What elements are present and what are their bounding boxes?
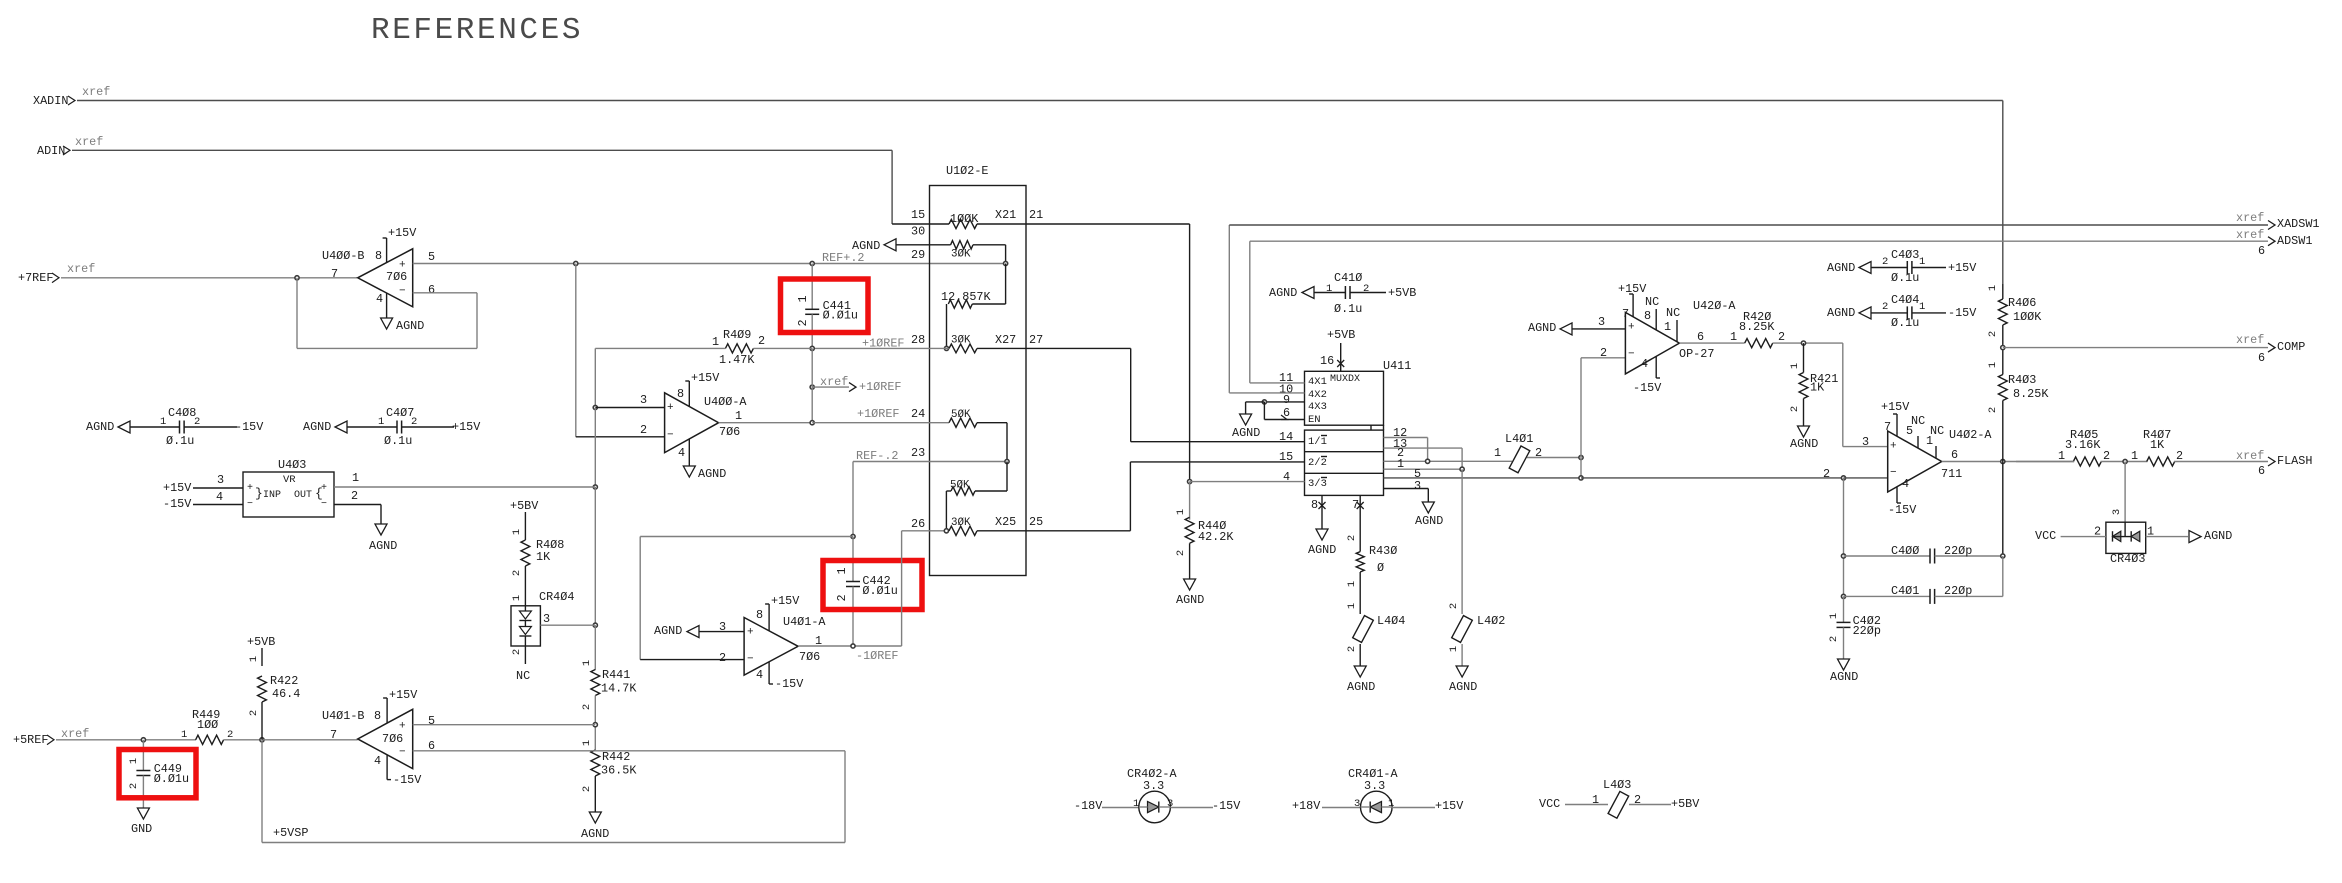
svg-text:3.16K: 3.16K bbox=[2065, 438, 2101, 452]
svg-text:4: 4 bbox=[678, 446, 685, 460]
svg-text:2: 2 bbox=[1882, 256, 1888, 268]
U402-A pin 4 -15V bbox=[1888, 477, 1917, 517]
CR404 diode 1 bbox=[519, 611, 531, 621]
svg-text:−: − bbox=[321, 499, 327, 510]
wire net to U402-A pin2 bbox=[1581, 476, 1888, 480]
CR402-A diode bbox=[1139, 802, 1171, 813]
U411 row3 label bbox=[1308, 478, 1327, 491]
svg-text:8: 8 bbox=[375, 249, 382, 263]
svg-text:7: 7 bbox=[1352, 498, 1359, 512]
svg-text:2: 2 bbox=[1778, 330, 1785, 344]
svg-text:8: 8 bbox=[1644, 309, 1651, 323]
resistor R421 1K bbox=[1789, 343, 1838, 451]
svg-text:+5REF: +5REF bbox=[13, 733, 48, 747]
svg-text:xref: xref bbox=[75, 135, 103, 149]
svg-text:14: 14 bbox=[1279, 430, 1293, 444]
svg-text:1: 1 bbox=[181, 729, 187, 741]
svg-text:2: 2 bbox=[758, 334, 765, 348]
svg-text:Ø.Ø1u: Ø.Ø1u bbox=[154, 772, 189, 786]
svg-text:ADSW1: ADSW1 bbox=[2277, 234, 2312, 248]
svg-text:3: 3 bbox=[543, 612, 550, 626]
svg-text:2: 2 bbox=[511, 570, 523, 576]
svg-text:46.4: 46.4 bbox=[272, 687, 300, 701]
svg-text:3: 3 bbox=[1354, 798, 1360, 810]
U411 pin 11 wire bbox=[1250, 371, 1305, 385]
svg-text:2: 2 bbox=[194, 416, 200, 428]
CR402-A left wire bbox=[1074, 798, 1139, 813]
U420-A pin 4 -15V bbox=[1633, 356, 1662, 395]
U411 pin 3 AGND bbox=[1384, 479, 1444, 528]
diode CR404 box bbox=[511, 590, 574, 646]
svg-text:+15V: +15V bbox=[691, 371, 720, 385]
svg-text:15: 15 bbox=[911, 208, 925, 222]
wire xref ADIN to pin15 bbox=[72, 150, 892, 224]
svg-text:AGND: AGND bbox=[654, 624, 682, 638]
svg-text:6: 6 bbox=[1283, 406, 1290, 420]
svg-text:3: 3 bbox=[2111, 509, 2123, 515]
U411 pin 4 wire bbox=[1188, 470, 1305, 484]
wire vertical to CR404 bbox=[594, 487, 596, 625]
svg-text:2: 2 bbox=[1882, 301, 1888, 313]
svg-text:+5VB: +5VB bbox=[1388, 286, 1416, 300]
op-amp U400-A bbox=[665, 393, 748, 453]
U411 pin 14 label bbox=[1279, 430, 1293, 444]
svg-text:R4Ø3: R4Ø3 bbox=[2008, 373, 2036, 387]
svg-text:14.7K: 14.7K bbox=[601, 682, 637, 696]
capacitor C403 bbox=[1827, 248, 1977, 285]
wire U402 pin2 vertical bbox=[1841, 478, 1845, 599]
svg-text:1.47K: 1.47K bbox=[719, 353, 755, 367]
svg-text:2: 2 bbox=[1448, 603, 1460, 609]
node R449/R422 bbox=[260, 738, 264, 742]
U401-B pin 5 wire bbox=[413, 714, 596, 728]
svg-text:AGND: AGND bbox=[1528, 321, 1556, 335]
port COMP bbox=[2236, 333, 2305, 365]
svg-text:6: 6 bbox=[428, 283, 435, 297]
svg-text:X27: X27 bbox=[995, 333, 1016, 347]
resistor 30K pin28-X27 bbox=[812, 333, 1130, 353]
svg-text:1: 1 bbox=[378, 416, 384, 428]
svg-text:8: 8 bbox=[1311, 498, 1318, 512]
svg-text:+: + bbox=[747, 627, 754, 639]
CR404 diode 2 bbox=[519, 606, 531, 646]
node L401/U420 bbox=[1579, 455, 1583, 480]
svg-text:5: 5 bbox=[428, 250, 435, 264]
wire U401-B feedback +5VSP bbox=[262, 740, 845, 843]
svg-text:2: 2 bbox=[1823, 467, 1830, 481]
U400-A pin 2 wire bbox=[576, 423, 665, 437]
svg-text:+: + bbox=[1890, 441, 1897, 453]
svg-text:1: 1 bbox=[248, 656, 260, 662]
svg-text:-15V: -15V bbox=[393, 773, 422, 787]
capacitor C410 bbox=[1269, 271, 1416, 316]
svg-text:2: 2 bbox=[1600, 346, 1607, 360]
CR401-A labels bbox=[1348, 767, 1398, 793]
svg-text:6: 6 bbox=[2258, 464, 2265, 478]
svg-text:−: − bbox=[667, 430, 674, 442]
voltage regulator U403 bbox=[243, 458, 334, 517]
svg-text:+15V: +15V bbox=[452, 420, 481, 434]
svg-text:7Ø6: 7Ø6 bbox=[799, 650, 820, 664]
CR401-A circle bbox=[1361, 791, 1393, 823]
resistor R430 0 bbox=[1346, 535, 1397, 614]
svg-text:2: 2 bbox=[1828, 636, 1840, 642]
svg-text:42.2K: 42.2K bbox=[1198, 530, 1234, 544]
svg-text:4X1: 4X1 bbox=[1308, 376, 1327, 388]
C407 labels bbox=[378, 406, 417, 448]
U401-B pin 6 wire bbox=[413, 739, 845, 753]
svg-text:AGND: AGND bbox=[1827, 261, 1855, 275]
svg-text:2: 2 bbox=[1175, 550, 1187, 556]
U402-A pin 5 NC bbox=[1906, 414, 1925, 448]
svg-text:VR: VR bbox=[283, 474, 296, 486]
svg-text:L4Ø3: L4Ø3 bbox=[1603, 778, 1631, 792]
U411 pin 7 wire bbox=[1352, 495, 1364, 551]
svg-text:R422: R422 bbox=[270, 674, 298, 688]
U411 pin 1 wire bbox=[1384, 457, 1465, 471]
svg-text:1: 1 bbox=[1592, 793, 1599, 807]
resistor R403 8.25K bbox=[1987, 362, 2049, 556]
svg-text:VCC: VCC bbox=[2035, 529, 2056, 543]
U411 pin 12 wire bbox=[1384, 426, 1428, 461]
U403 pin 4 bbox=[163, 490, 243, 511]
U401-A pin 4 -15V bbox=[756, 662, 804, 691]
svg-text:2: 2 bbox=[1346, 535, 1358, 541]
svg-text:AGND: AGND bbox=[1232, 426, 1260, 440]
svg-text:-15V: -15V bbox=[1212, 799, 1241, 813]
svg-text:+7REF: +7REF bbox=[18, 271, 53, 285]
svg-text:7: 7 bbox=[1884, 420, 1891, 434]
highlight box C441 bbox=[781, 279, 869, 333]
C441 labels bbox=[796, 295, 858, 326]
wire R409 net bbox=[595, 348, 812, 407]
U401-A pin 3 AGND bbox=[654, 620, 744, 638]
svg-text:3: 3 bbox=[1598, 315, 1605, 329]
svg-text:L4Ø4: L4Ø4 bbox=[1377, 614, 1405, 628]
svg-text:XADSW1: XADSW1 bbox=[2277, 217, 2319, 231]
svg-text:1: 1 bbox=[1730, 330, 1737, 344]
svg-text:INP: INP bbox=[263, 490, 281, 501]
CR402-A right wire bbox=[1167, 798, 1241, 813]
U411 row2 label bbox=[1308, 457, 1327, 470]
svg-text:xref: xref bbox=[820, 375, 848, 389]
svg-text:-1ØREF: -1ØREF bbox=[856, 649, 898, 663]
wire to U420-A pin2 bbox=[1581, 358, 1625, 458]
svg-text:U4Ø2-A: U4Ø2-A bbox=[1949, 428, 1992, 442]
svg-text:22Øp: 22Øp bbox=[1944, 544, 1972, 558]
label 50K bbox=[951, 409, 971, 421]
wire C441 net vertical lower bbox=[811, 348, 813, 422]
svg-text:3: 3 bbox=[1167, 798, 1173, 810]
port ADIN bbox=[37, 135, 103, 158]
U400-B pin 6 wire bbox=[413, 283, 477, 297]
svg-text:1: 1 bbox=[1828, 613, 1840, 619]
svg-text:REF+.2: REF+.2 bbox=[822, 251, 864, 265]
svg-text:xref: xref bbox=[82, 85, 110, 99]
CR403 left wire bbox=[2035, 525, 2131, 544]
U420-A pin 1 NC bbox=[1664, 306, 1680, 342]
svg-text:1: 1 bbox=[1388, 798, 1394, 810]
U400-A output wire bbox=[719, 409, 813, 423]
svg-text:2: 2 bbox=[1987, 407, 1999, 413]
U400-A pin 3 wire bbox=[593, 393, 664, 409]
svg-text:1: 1 bbox=[352, 471, 359, 485]
svg-text:711: 711 bbox=[1941, 467, 1962, 481]
U402-A output wire bbox=[1942, 448, 2074, 463]
U411 pin 8 AGND bbox=[1308, 495, 1336, 557]
U403 internals bbox=[247, 483, 327, 510]
svg-text:−: − bbox=[399, 286, 406, 298]
svg-text:+15V: +15V bbox=[1881, 400, 1910, 414]
svg-text:8.25K: 8.25K bbox=[1739, 320, 1775, 334]
svg-text:6: 6 bbox=[2258, 351, 2265, 365]
capacitor C401 220p bbox=[1844, 556, 2003, 604]
svg-text:4: 4 bbox=[1902, 477, 1909, 491]
U400-B pin 4 AGND bbox=[376, 292, 424, 333]
svg-text:L4Ø2: L4Ø2 bbox=[1477, 614, 1505, 628]
svg-text:1ØØK: 1ØØK bbox=[950, 212, 979, 226]
U403 pin 1 wire bbox=[334, 471, 595, 487]
svg-text:-15V: -15V bbox=[1633, 381, 1662, 395]
U402-A pin 2 label bbox=[1823, 467, 1830, 481]
svg-text:22Øp: 22Øp bbox=[1944, 584, 1972, 598]
U401-A output wire bbox=[798, 634, 902, 648]
U411 pin 15 label bbox=[1279, 450, 1293, 464]
resistor 30K pin30 bbox=[852, 225, 1006, 264]
U401-A pin 2 wire bbox=[640, 651, 744, 665]
svg-text:NC: NC bbox=[1666, 306, 1680, 320]
resistor 12.857K bbox=[941, 264, 1006, 349]
svg-text:5ØK: 5ØK bbox=[950, 479, 970, 491]
svg-text:1: 1 bbox=[2131, 449, 2138, 463]
svg-text:1: 1 bbox=[581, 740, 593, 746]
capacitor C442 bbox=[846, 537, 860, 647]
resistor R408 1K bbox=[511, 529, 564, 606]
svg-text:Ø.1u: Ø.1u bbox=[1891, 271, 1919, 285]
svg-text:3ØK: 3ØK bbox=[951, 248, 971, 260]
svg-text:4: 4 bbox=[756, 668, 763, 682]
IC U411 label bbox=[1383, 359, 1411, 373]
op-amp U420-A bbox=[1625, 299, 1736, 374]
CR403 right wire AGND bbox=[2146, 525, 2233, 544]
wire U400-B feedback loop bbox=[297, 278, 477, 349]
wire pin1 to L402 bbox=[1461, 469, 1463, 614]
CR401-A diode bbox=[1361, 802, 1393, 813]
svg-text:C4Ø3: C4Ø3 bbox=[1891, 248, 1919, 262]
resistor 30K pin26-X25 bbox=[902, 517, 1131, 535]
svg-text:U4Ø1-A: U4Ø1-A bbox=[783, 615, 826, 629]
highlight box C442 bbox=[823, 561, 922, 610]
inductor L403 bbox=[1539, 778, 1700, 818]
CR404 pin 2 NC bbox=[511, 646, 530, 683]
R442 AGND bbox=[581, 776, 609, 841]
svg-text:REFERENCES: REFERENCES bbox=[371, 13, 583, 48]
label 100K bbox=[950, 212, 979, 226]
svg-text:4: 4 bbox=[374, 754, 381, 768]
wire +7REF to U400-B bbox=[61, 277, 357, 279]
svg-text:1: 1 bbox=[511, 529, 523, 535]
U420-A output wire bbox=[1679, 330, 1744, 344]
svg-text:AGND: AGND bbox=[2204, 529, 2232, 543]
resistor 50K pin24 bbox=[812, 407, 1007, 461]
wire xref XADIN net bbox=[77, 101, 2003, 285]
resistor R449 100 bbox=[181, 708, 262, 744]
CR403 diode 2 bbox=[2125, 522, 2140, 541]
svg-text:23: 23 bbox=[911, 446, 925, 460]
label +5VSP bbox=[273, 826, 308, 840]
svg-text:1: 1 bbox=[511, 595, 523, 601]
svg-text:+: + bbox=[667, 402, 674, 414]
svg-text:xref: xref bbox=[2236, 211, 2264, 225]
svg-text:4: 4 bbox=[216, 490, 223, 504]
wire to R441 bbox=[594, 625, 596, 670]
svg-text:1: 1 bbox=[1346, 603, 1358, 609]
capacitor C408 wire bbox=[86, 420, 264, 434]
svg-text:1: 1 bbox=[2147, 525, 2154, 539]
U411 pin 5 wire bbox=[1384, 467, 1582, 481]
U400-A pin 4 AGND bbox=[678, 439, 726, 482]
label 30K pin30 bbox=[951, 248, 971, 260]
svg-text:+: + bbox=[247, 483, 253, 494]
svg-text:+15V: +15V bbox=[771, 594, 800, 608]
svg-text:+5VB: +5VB bbox=[247, 635, 275, 649]
svg-text:7Ø6: 7Ø6 bbox=[386, 270, 407, 284]
svg-text:C4Ø8: C4Ø8 bbox=[168, 406, 196, 420]
svg-text:+18V: +18V bbox=[1292, 799, 1321, 813]
svg-text:+15V: +15V bbox=[163, 481, 192, 495]
U420-A pin 3 AGND bbox=[1528, 315, 1625, 335]
node 30K/REF+.2 bbox=[1004, 261, 1008, 265]
wire +5REF bbox=[56, 738, 196, 742]
U402-A pin 3 label bbox=[1862, 435, 1869, 449]
resistor R407 1K bbox=[2131, 428, 2268, 466]
svg-text:Ø.1u: Ø.1u bbox=[1334, 302, 1362, 316]
svg-text:COMP: COMP bbox=[2277, 340, 2305, 354]
svg-text:1ØØ: 1ØØ bbox=[197, 718, 218, 732]
svg-text:6: 6 bbox=[1951, 448, 1958, 462]
svg-text:U1Ø2-E: U1Ø2-E bbox=[946, 164, 988, 178]
svg-text:2: 2 bbox=[1346, 646, 1358, 652]
CR404 pin 3 wire bbox=[540, 612, 595, 626]
svg-text:U4Ø1-B: U4Ø1-B bbox=[322, 709, 364, 723]
svg-text:+5VB: +5VB bbox=[1327, 328, 1355, 342]
U411 pin 9 AGND bbox=[1232, 393, 1305, 440]
wire REF-.2 drop bbox=[852, 462, 854, 537]
svg-text:C4Ø1: C4Ø1 bbox=[1891, 584, 1919, 598]
U411 upper labels bbox=[1308, 374, 1360, 426]
wire to U401-B bbox=[262, 739, 358, 741]
U420-A pin 7 +15V bbox=[1618, 282, 1647, 321]
svg-text:MUXDX: MUXDX bbox=[1330, 374, 1360, 385]
svg-text:Ø.1u: Ø.1u bbox=[166, 434, 194, 448]
U420-A pin 2 label bbox=[1600, 346, 1607, 360]
svg-text:7Ø6: 7Ø6 bbox=[382, 732, 403, 746]
svg-text:+15V: +15V bbox=[1948, 261, 1977, 275]
svg-text:+1ØREF: +1ØREF bbox=[859, 380, 901, 394]
U402-A pin 7 +15V bbox=[1881, 400, 1910, 436]
svg-text:7: 7 bbox=[330, 728, 337, 742]
pin 29 label bbox=[911, 248, 925, 262]
C449 labels bbox=[128, 758, 189, 789]
svg-text:1: 1 bbox=[712, 335, 719, 349]
U400-B pin 7 label bbox=[331, 267, 338, 281]
svg-text:6: 6 bbox=[1697, 330, 1704, 344]
svg-text:6: 6 bbox=[2258, 244, 2265, 258]
node C441/pin28 bbox=[810, 346, 814, 350]
svg-text:CR4Ø4: CR4Ø4 bbox=[539, 590, 574, 604]
svg-text:15: 15 bbox=[1279, 450, 1293, 464]
svg-text:4X3: 4X3 bbox=[1308, 401, 1327, 413]
svg-text:1K: 1K bbox=[536, 550, 551, 564]
op-amp U401-B bbox=[322, 709, 413, 768]
CR401-A right wire bbox=[1388, 798, 1464, 813]
svg-text:2: 2 bbox=[248, 710, 260, 716]
svg-text:1: 1 bbox=[128, 758, 140, 764]
svg-text:+1ØREF: +1ØREF bbox=[857, 407, 899, 421]
svg-text:2: 2 bbox=[1789, 406, 1801, 412]
svg-text:−: − bbox=[399, 747, 406, 759]
node U403 out bbox=[593, 485, 597, 489]
svg-text:5ØK: 5ØK bbox=[951, 409, 971, 421]
svg-text:+15V: +15V bbox=[1435, 799, 1464, 813]
resistor R422 46.4 bbox=[248, 656, 300, 740]
svg-text:1ØØK: 1ØØK bbox=[2013, 310, 2042, 324]
svg-text:ADIN: ADIN bbox=[37, 144, 65, 158]
svg-text:7: 7 bbox=[331, 267, 338, 281]
svg-text:21: 21 bbox=[1029, 208, 1043, 222]
svg-text:+5BV: +5BV bbox=[1671, 797, 1700, 811]
wire XADSW1 net bbox=[1229, 225, 2268, 393]
svg-text:1K: 1K bbox=[1810, 381, 1825, 395]
wire to R440 bbox=[1189, 482, 1191, 520]
svg-text:−: − bbox=[1628, 349, 1635, 361]
svg-text:1: 1 bbox=[1448, 646, 1460, 652]
svg-text:AGND: AGND bbox=[1347, 680, 1375, 694]
svg-text:}: } bbox=[255, 486, 263, 501]
svg-text:2: 2 bbox=[411, 416, 417, 428]
wire X21 vertical to pin4 row bbox=[1189, 224, 1191, 482]
power +5BV R408 bbox=[510, 499, 539, 540]
wire R409 vertical mid bbox=[594, 408, 596, 488]
svg-text:2: 2 bbox=[719, 651, 726, 665]
svg-text:−: − bbox=[747, 654, 754, 666]
U411 lower box bbox=[1305, 430, 1384, 495]
svg-text:OUT: OUT bbox=[294, 490, 312, 501]
svg-text:CR4Ø3: CR4Ø3 bbox=[2110, 552, 2145, 566]
svg-text:AGND: AGND bbox=[1308, 543, 1336, 557]
port +7REF bbox=[18, 262, 95, 285]
CR401-A left wire bbox=[1292, 798, 1361, 813]
svg-text:1/1: 1/1 bbox=[1308, 436, 1327, 448]
inductor L404 bbox=[1346, 603, 1405, 694]
svg-text:-18V: -18V bbox=[1074, 799, 1103, 813]
U402-A pin 1 NC bbox=[1926, 424, 1944, 458]
node CR404 pin3 bbox=[593, 623, 597, 627]
svg-text:Ø.1u: Ø.1u bbox=[1891, 316, 1919, 330]
wire ADSW1 net bbox=[1250, 241, 2268, 383]
port XADSW1 bbox=[2236, 211, 2319, 231]
svg-text:3ØK: 3ØK bbox=[951, 334, 971, 346]
svg-text:-15V: -15V bbox=[775, 677, 804, 691]
CR403 diode 1 bbox=[2113, 531, 2121, 541]
svg-text:AGND: AGND bbox=[852, 239, 880, 253]
svg-text:X25: X25 bbox=[995, 515, 1016, 529]
svg-text:3/3: 3/3 bbox=[1308, 478, 1327, 490]
svg-text:Ø.1u: Ø.1u bbox=[384, 434, 412, 448]
inductor L402 bbox=[1448, 603, 1505, 694]
U420-A pin 8 NC bbox=[1644, 295, 1659, 330]
svg-text:NC: NC bbox=[1645, 295, 1659, 309]
